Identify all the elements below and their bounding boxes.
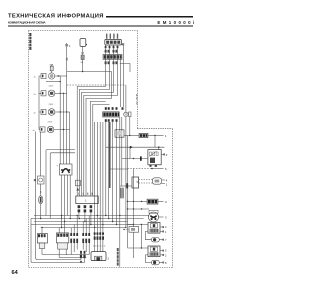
- svg-text:10A: 10A: [81, 52, 85, 55]
- wire: bus row Y3: [34, 221, 128, 223]
- tick: [163, 250, 164, 252]
- wire: bus B3 vertical: [58, 76, 60, 164]
- junction dots: [127, 201, 128, 202]
- dashes under pins: [93, 245, 106, 247]
- wire: mid column M1: [105, 122, 107, 216]
- wire: lamp drop: [125, 117, 127, 228]
- wire: bus row Y1: [34, 215, 149, 217]
- svg-text:2а: 2а: [34, 94, 37, 96]
- wire: receptacle left rail: [39, 76, 41, 130]
- svg-text:230V: 230V: [48, 122, 53, 124]
- junction dot: [158, 146, 160, 148]
- svg-text:6: 6: [165, 167, 167, 171]
- wire: mid column M4: [116, 122, 118, 225]
- junction dot: [66, 111, 67, 112]
- ground arrow G1: [80, 258, 82, 263]
- connector bar: [140, 156, 142, 160]
- pin column PC1: [70, 233, 90, 243]
- wire: dashed y168.5: [128, 168, 153, 170]
- junction dot: [119, 135, 120, 136]
- wire: right column x127.5: [127, 136, 129, 249]
- wire: mid column M3: [112, 122, 114, 222]
- wire: bottom run B: [59, 257, 86, 259]
- junction dots on buses: [40, 215, 127, 228]
- wire: SB1 dash-dot: [124, 228, 129, 230]
- svg-text:4: 4: [165, 225, 167, 229]
- transformer T2: [56, 233, 68, 249]
- wire: R4 rail to switch: [40, 132, 42, 176]
- wire: B1 dashes to CN7: [139, 178, 153, 180]
- wire: bridge outputs down: [62, 175, 71, 222]
- connector pair CP2: [105, 61, 118, 64]
- label: R2 voltage: [49, 86, 54, 88]
- enclosure border mid vertical: [136, 31, 138, 129]
- wire: switch drop: [40, 184, 42, 195]
- connector bar: [126, 183, 128, 188]
- svg-text:2: 2: [165, 253, 167, 257]
- wire: feed to engine fuse: [124, 135, 139, 137]
- wire: relay right stub: [161, 153, 164, 155]
- receptacle R3: [48, 109, 55, 116]
- svg-text:1: 1: [85, 199, 87, 203]
- receptacle R1: [49, 73, 55, 79]
- wire: CN7 stubs: [162, 180, 165, 184]
- label 8: [165, 261, 167, 265]
- wire: IC2 stubs: [160, 251, 163, 255]
- wire: col x123.5 drop: [123, 85, 125, 107]
- wire: y201.5 run: [128, 201, 148, 203]
- junction dot: [151, 168, 153, 170]
- junction dot: [58, 75, 59, 76]
- svg-text:4а: 4а: [33, 130, 36, 132]
- starter motor SM1: [149, 210, 159, 222]
- tick: [164, 153, 165, 155]
- wire: relay left feed: [122, 158, 148, 160]
- TB1 top stubs: [106, 34, 118, 39]
- wire: bus row Y2: [31, 218, 144, 220]
- label: receptacle R2: [34, 94, 37, 96]
- wire: fuse to label: [148, 135, 164, 137]
- wire: bus row Y5: [41, 227, 126, 229]
- wire: y169 from heavy column: [110, 168, 128, 170]
- header rule right of title: [106, 16, 193, 17]
- svg-text:30A: 30A: [50, 64, 54, 67]
- junction dot: [133, 158, 134, 159]
- wire: staircase S1: [77, 66, 105, 196]
- svg-text:1: 1: [165, 134, 167, 138]
- connector CN4: [65, 43, 71, 48]
- terminal strip TB2: [103, 54, 122, 59]
- label: receptacle R1: [34, 77, 37, 79]
- key switch SW1: [80, 39, 87, 47]
- wire: bus B2 vertical: [62, 93, 64, 164]
- label: receptacle R4: [33, 130, 36, 132]
- enclosure border step: [137, 128, 172, 130]
- wire: right column x133.5: [133, 169, 135, 227]
- wire: meter drop to fuse wire: [129, 117, 131, 136]
- ignition coil IC2: [148, 246, 160, 257]
- label 1: [166, 183, 168, 187]
- wire: R4 to bus: [54, 129, 70, 131]
- wire: engine feed columns down: [95, 122, 103, 252]
- wire: R2 to bus: [55, 92, 67, 94]
- svg-text:7: 7: [165, 238, 167, 242]
- wire: bus B1 vertical: [66, 48, 68, 165]
- junction dot: [63, 93, 64, 94]
- junction dot: [63, 129, 64, 130]
- enclosure border bottom: [29, 267, 173, 269]
- svg-text:4: 4: [69, 45, 71, 48]
- svg-text:+: +: [57, 165, 59, 168]
- tick: [163, 226, 164, 228]
- regulator box B1: [132, 177, 139, 188]
- enclosure border: control panel (dashed): [29, 30, 138, 32]
- ground arrow G2: [84, 258, 86, 262]
- CDI unit CD1: [91, 252, 110, 261]
- wire: OS1 stub: [158, 201, 164, 203]
- wire: return loop outer: [31, 219, 85, 263]
- svg-text:1: 1: [165, 230, 167, 234]
- junction dot: [60, 93, 61, 94]
- label 1: [165, 230, 167, 234]
- wire: B1 left feed: [120, 185, 132, 187]
- indicator lamp L1: [124, 112, 128, 116]
- wire: relay top feed: [155, 136, 159, 150]
- wire: pin column drops: [71, 243, 89, 255]
- pin labels above CU1: [78, 193, 92, 195]
- label: receptacle R3: [34, 113, 37, 115]
- enclosure border right: [172, 129, 174, 268]
- svg-text:3: 3: [166, 153, 168, 157]
- label: inverter unit (vertical): [135, 94, 137, 105]
- arrow A1: [130, 146, 133, 149]
- receptacle R1 fuse: [50, 64, 54, 74]
- spark plug SP1: [151, 238, 163, 243]
- connector CN5 top-right: [121, 43, 124, 45]
- wire: y209 run: [128, 208, 150, 210]
- label 3: [165, 216, 167, 220]
- svg-text:БЛОК УПР.: БЛОК УПР.: [135, 94, 137, 105]
- connector CN7: [152, 178, 161, 184]
- fuse F2 (lens): [39, 195, 43, 219]
- switch SW2: [34, 176, 44, 184]
- wire: T1 leg: [41, 248, 43, 254]
- wire: corner feed A: [46, 150, 75, 216]
- wire: return loop inner: [36, 132, 81, 260]
- label 7: [165, 238, 167, 242]
- junction dot: [40, 191, 41, 192]
- wire: T2 feeds: [59, 216, 64, 233]
- wire: staircase S2: [79, 66, 109, 196]
- wire: mid column M6 (heavy): [109, 122, 111, 188]
- junction dot: [60, 111, 61, 112]
- net label on bus: [66, 58, 68, 61]
- receptacle R3 terminal box: [41, 109, 46, 114]
- svg-text:ЗУ: ЗУ: [135, 180, 138, 183]
- wire: T2 legs: [59, 249, 66, 257]
- svg-text:1а: 1а: [34, 77, 37, 79]
- fuse F3: [139, 133, 148, 137]
- wire: staircase S6: [90, 101, 105, 196]
- meter M1: [129, 112, 131, 117]
- connector CN8 (hatched): [120, 188, 123, 198]
- wire: x130 drop: [129, 147, 131, 158]
- header rule 2: [8, 24, 193, 27]
- wire: IC1 feed: [128, 223, 149, 225]
- tick: [163, 254, 164, 256]
- svg-text:1: 1: [166, 183, 168, 187]
- diode bridge DB1: [57, 164, 73, 175]
- label C: [165, 200, 167, 204]
- pins under TB1: [105, 46, 119, 48]
- connector CN6 on column: [75, 180, 80, 190]
- label b: [166, 153, 168, 157]
- label 2: [165, 253, 167, 257]
- label 2: [165, 134, 167, 138]
- label: engine (vertical): [117, 248, 119, 266]
- wire: SB1 drop: [133, 232, 135, 258]
- sensor box SB1: [129, 227, 139, 233]
- wire: pin column feeds: [71, 216, 89, 234]
- oil switch OS1: [147, 199, 158, 204]
- spark plug SP2: [151, 260, 163, 265]
- wire: SM1 stub: [159, 216, 164, 218]
- junction dot: [141, 224, 142, 225]
- wire: col right y63: [120, 63, 130, 72]
- relay block row RB1: [103, 112, 120, 117]
- svg-text:3а: 3а: [34, 113, 37, 115]
- wire: IC2 feed: [128, 247, 149, 249]
- junction dot: [129, 135, 130, 136]
- wire: mid column M7: [121, 117, 123, 186]
- svg-text:8: 8: [165, 261, 167, 265]
- svg-text:5: 5: [165, 249, 167, 253]
- receptacle R2 terminal box: [41, 91, 46, 96]
- wire: feed y71.5: [67, 71, 112, 73]
- wire: mid column M5: [119, 117, 121, 267]
- wire: T1 feed: [41, 228, 43, 234]
- label 4: [165, 225, 167, 229]
- starter relay K1: [148, 150, 161, 167]
- connector pair CP1: [105, 50, 118, 53]
- wire: key switch drop: [82, 46, 84, 71]
- wire: R3 to bus: [55, 111, 70, 113]
- wire: bottom run A: [42, 254, 89, 256]
- label 4: [166, 178, 168, 182]
- wire: corner feed B: [50, 153, 75, 219]
- wire: CN5 drop: [123, 45, 125, 85]
- relay contact row RC2 (lower pins): [105, 119, 118, 122]
- wire: staircase S7: [93, 104, 110, 196]
- junction dot: [141, 247, 142, 248]
- svg-text:230V: 230V: [49, 86, 54, 88]
- wire: R1 neutral stub: [46, 81, 60, 83]
- CU1 pins: [78, 205, 93, 212]
- receptacle R1 terminal box: [41, 73, 46, 78]
- svg-text:C: C: [165, 200, 167, 204]
- wire: lamp feed: [125, 85, 127, 112]
- svg-text:230V: 230V: [49, 104, 54, 106]
- svg-text:3: 3: [165, 216, 167, 220]
- label: control panel (vertical text): [29, 33, 31, 50]
- wire: coil feed vertical: [140, 224, 142, 248]
- tick: [163, 230, 164, 232]
- receptacle R4 terminal box: [40, 127, 45, 132]
- ignition coil IC1: [148, 223, 160, 234]
- transformer T1: [37, 234, 47, 249]
- relay contact row RC1 (upper pins): [105, 107, 124, 110]
- fuse F1: [81, 52, 85, 65]
- wire: staircase S4: [84, 66, 118, 196]
- svg-text:5: 5: [108, 258, 110, 261]
- wire: to label: [152, 168, 164, 170]
- pin stack PS1: [80, 251, 86, 258]
- label: R4 voltage: [48, 122, 53, 124]
- terminal block TB1: [105, 39, 122, 45]
- wire: IC1 to plug loop: [145, 231, 151, 239]
- wire: staircase S5: [86, 72, 112, 197]
- junction dot: [129, 147, 130, 148]
- junction dot: [82, 71, 83, 72]
- pins: magneto connector field: [94, 232, 104, 239]
- wire: mid column M2: [108, 122, 110, 219]
- wire: staircase S3: [82, 66, 114, 196]
- wire: IC1 stubs: [160, 227, 163, 231]
- control unit CU1: [76, 196, 98, 204]
- receptacle R2: [48, 90, 55, 97]
- wire: relay y147.2 run: [106, 146, 165, 148]
- connector block CB2: [115, 130, 124, 137]
- junction dot: [133, 224, 134, 225]
- label 5: [165, 249, 167, 253]
- wire: dashed feed y85: [67, 84, 126, 86]
- wire: bus row Y4: [31, 224, 134, 226]
- receptacle R4: [47, 126, 54, 133]
- label 6: [165, 167, 167, 171]
- wire: IC2 to plug loop: [145, 255, 151, 263]
- wire: col drop x120.5: [120, 59, 122, 107]
- svg-text:5A: 5A: [81, 61, 84, 64]
- enclosure border left: [28, 31, 30, 268]
- wire: bus B4 vertical: [69, 112, 71, 164]
- wire: R1 to bus: [55, 75, 67, 77]
- junction dot: [154, 135, 155, 136]
- wires: TB1 columns vertical: [106, 45, 118, 66]
- wire: CU1 pin drops: [79, 212, 91, 224]
- label: R3 voltage: [49, 104, 54, 106]
- junction dot: [60, 81, 61, 82]
